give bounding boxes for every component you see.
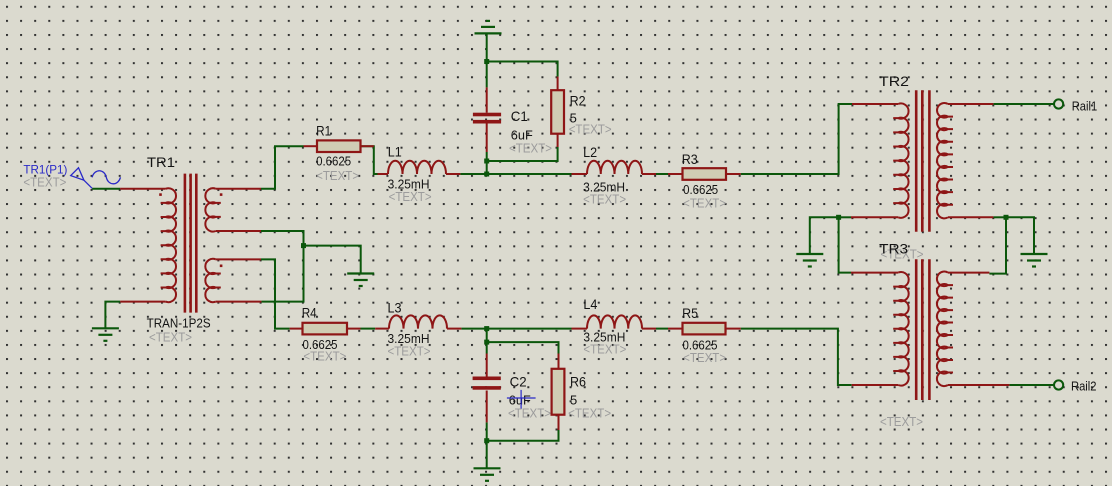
junction node C2 top — [484, 340, 489, 345]
wire node B down to TR3 primary top — [839, 217, 851, 272]
transformer TR1 primary winding — [120, 188, 166, 190]
svg-text:Rail2: Rail2 — [1071, 379, 1097, 394]
svg-text:L3: L3 — [388, 300, 402, 316]
wire TR2 secondary bottom to node C — [993, 216, 1006, 218]
svg-text:0.6625: 0.6625 — [316, 153, 351, 168]
generator TR1(P1) symbol — [71, 168, 121, 189]
junction node A (C1 top) — [484, 59, 489, 64]
svg-text:L2: L2 — [583, 144, 597, 160]
svg-text:<TEXT>: <TEXT> — [583, 342, 626, 357]
wire R5 to TR3 primary bottom — [741, 329, 852, 385]
transformer TR3 primary winding — [851, 272, 898, 274]
svg-text:C1: C1 — [511, 108, 528, 124]
junction node C1 bottom — [484, 159, 489, 164]
wire TR2 primary bottom to node B — [839, 216, 851, 218]
transformer TR2 primary winding — [852, 103, 898, 105]
transformer TR1 secondary 1 winding — [216, 188, 261, 190]
ground left of TR2/TR3 — [796, 253, 823, 255]
transformer TR3 core — [915, 259, 918, 400]
svg-text:<TEXT>: <TEXT> — [569, 122, 612, 137]
wire L1 to L2 (node LC1) — [460, 173, 571, 175]
svg-text:R5: R5 — [682, 305, 698, 321]
svg-text:R1: R1 — [316, 123, 331, 139]
resistor R4 — [290, 328, 303, 330]
wire C1 top lead upper segment — [486, 62, 488, 88]
wire C2 node to R6 top — [487, 342, 559, 353]
capacitor C2 — [486, 354, 488, 377]
svg-text:<TEXT>: <TEXT> — [880, 414, 923, 429]
svg-text:L4: L4 — [583, 296, 597, 312]
svg-text:<TEXT>: <TEXT> — [23, 175, 66, 190]
wire TR1 sec-top top pin to R1 (node A) — [261, 146, 304, 189]
junction node TR1 center tap — [301, 243, 306, 248]
resistor R6 — [558, 354, 560, 369]
wire R4 to L3 — [361, 328, 376, 330]
svg-text:Rail1: Rail1 — [1072, 98, 1098, 113]
inductor L1 — [378, 173, 389, 175]
resistor R3 — [668, 173, 683, 175]
wire TR1 sec-bottom top pin to R4 — [261, 259, 290, 328]
wire L4 to R5 — [656, 328, 668, 330]
svg-text:<TEXT>: <TEXT> — [388, 344, 431, 359]
wire center junction down to sec-bottom bottom pin — [261, 246, 303, 302]
terminal Rail1 — [1054, 99, 1063, 108]
svg-text:<TEXT>: <TEXT> — [568, 406, 611, 421]
wire center junction to ground — [304, 246, 361, 274]
svg-text:<TEXT>: <TEXT> — [149, 330, 192, 345]
phase dot TR1 secondary 2 — [220, 265, 223, 268]
wire node C to right ground — [1006, 217, 1034, 254]
wire R3 to TR2 primary top — [741, 104, 852, 174]
svg-text:<TEXT>: <TEXT> — [316, 168, 359, 183]
svg-text:<TEXT>: <TEXT> — [303, 348, 346, 363]
transformer TR1 core — [184, 174, 187, 313]
ground TR1 primary — [92, 327, 119, 329]
cursor mark over C2 value — [507, 390, 536, 409]
junction node C (TR2-TR3 right) — [1004, 215, 1009, 220]
svg-text:TR2: TR2 — [879, 73, 909, 89]
svg-text:TR1: TR1 — [147, 154, 175, 170]
wire TR3 secondary bottom to terminal Rail2 — [1009, 384, 1054, 386]
svg-text:TR3: TR3 — [879, 241, 908, 257]
wire R6 bottom to lower C2 node — [487, 430, 559, 441]
inductor L3 — [375, 328, 389, 330]
svg-text:R6: R6 — [570, 374, 586, 390]
wire TR2 secondary top to terminal Rail1 — [993, 103, 1054, 105]
wire R1 output down to L1 — [361, 146, 378, 174]
capacitor C1 — [486, 87, 488, 112]
svg-text:L1: L1 — [388, 144, 402, 160]
wire R2 bottom to lower C1 node — [487, 147, 558, 161]
wire node B to left ground — [810, 217, 839, 254]
svg-text:<TEXT>: <TEXT> — [683, 196, 726, 211]
wire generator to TR1 primary top — [92, 188, 120, 190]
wire lower C1 node to main row — [486, 161, 488, 174]
transformer TR2 core — [915, 90, 918, 231]
svg-text:<TEXT>: <TEXT> — [389, 189, 432, 204]
ground right of TR2/TR3 — [1021, 253, 1048, 255]
svg-text:<TEXT>: <TEXT> — [583, 192, 626, 207]
wire top ground to C1 node — [486, 33, 488, 61]
wire C2 bottom segment — [486, 422, 488, 440]
svg-text:R2: R2 — [570, 93, 586, 109]
wire main row to C2 node — [486, 329, 488, 343]
resistor R2 — [557, 77, 559, 91]
junction node B (TR2-TR3 left) — [836, 215, 841, 220]
svg-text:<TEXT>: <TEXT> — [508, 406, 551, 421]
transformer TR3 secondary winding — [948, 272, 989, 274]
wire C1 bottom segment — [486, 152, 488, 161]
junction node on bottom row at C2 branch — [484, 326, 489, 331]
wire TR1 sec-top bottom pin to center junction — [261, 231, 304, 246]
inductor L2 — [572, 173, 588, 175]
transformer TR1 secondary 2 winding — [216, 258, 261, 260]
transformer TR2 secondary winding — [948, 103, 993, 105]
wire lower C2 node to bottom ground — [486, 441, 488, 469]
resistor R1 — [304, 145, 318, 147]
resistor R5 — [668, 328, 683, 330]
svg-text:C2: C2 — [510, 374, 527, 390]
wire C2 top segment — [486, 342, 488, 353]
wire L3 to L4 (node LC2) — [461, 328, 571, 330]
junction node C2 bottom — [484, 438, 489, 443]
svg-text:<TEXT>: <TEXT> — [509, 140, 552, 155]
svg-text:TRAN-1P2S: TRAN-1P2S — [147, 316, 211, 331]
svg-text:<TEXT>: <TEXT> — [683, 350, 726, 365]
svg-text:R3: R3 — [682, 151, 698, 167]
ground TR1 center tap — [347, 272, 374, 274]
ground top (above C1) — [475, 32, 502, 34]
wire node C down to TR3 secondary top — [989, 217, 1006, 273]
junction node on top row at C1 branch — [484, 172, 489, 177]
phase dot TR1 secondary 1 — [220, 193, 223, 196]
wire TR1 primary bottom to ground — [105, 302, 120, 329]
inductor L4 — [572, 328, 588, 330]
wire C1 node to R2 top — [487, 62, 558, 77]
svg-text:R4: R4 — [302, 305, 317, 321]
wire L2 to R3 — [656, 173, 668, 175]
ground below C2 — [474, 467, 501, 469]
phase dot TR1 primary — [159, 193, 162, 196]
terminal Rail2 — [1054, 380, 1063, 389]
